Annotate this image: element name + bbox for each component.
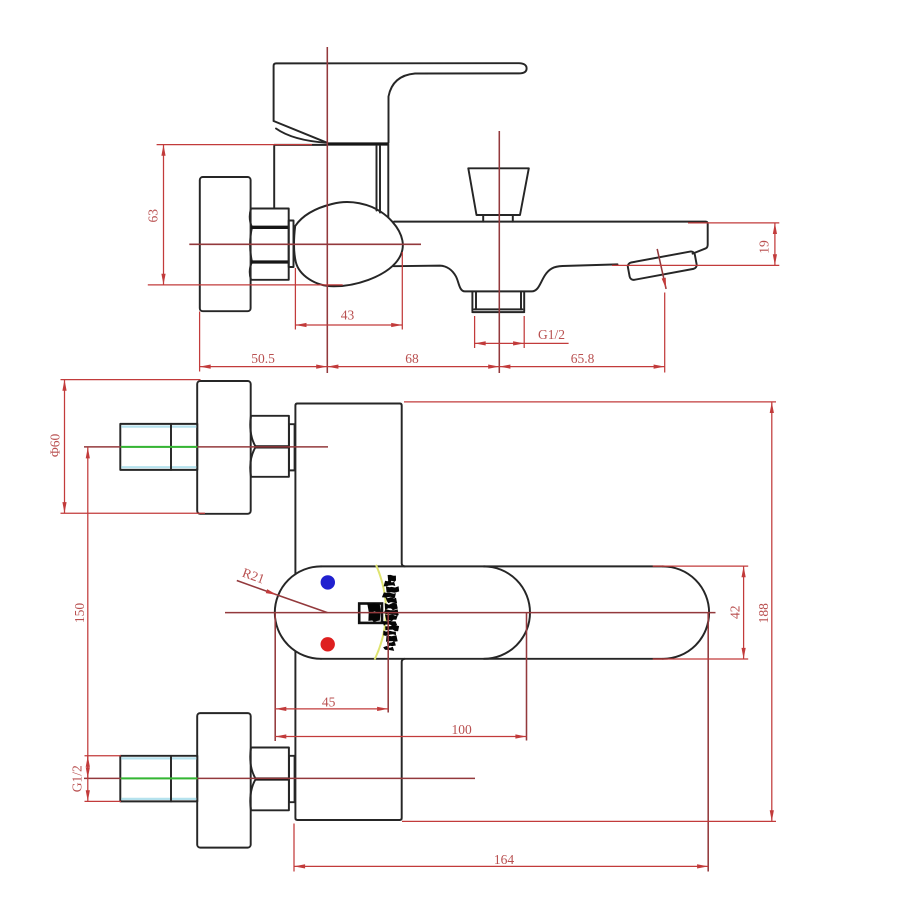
lower pipe divider <box>170 756 172 802</box>
nipple thread root lines <box>476 292 521 310</box>
upper wall flange (front) <box>197 381 251 514</box>
diverter centerline (vertical) <box>498 131 500 373</box>
svg-text:43: 43 <box>341 308 355 323</box>
extension line handle axis <box>387 613 389 713</box>
handle dome arc <box>276 129 327 143</box>
svg-text:63: 63 <box>146 209 161 223</box>
lower hex nut facet line <box>256 777 289 780</box>
nipple bottom cap <box>474 308 523 310</box>
hex nut (side) outline <box>251 209 289 280</box>
dim G1/2 top line <box>475 342 525 344</box>
lower eccentric pipe <box>120 756 197 802</box>
dim G1/2 top extension lines <box>475 316 525 348</box>
svg-text:19: 19 <box>757 240 772 254</box>
dim 188 extension lines <box>402 402 776 822</box>
dim 150 line <box>87 447 89 778</box>
dim 42 line <box>743 566 745 659</box>
svg-text:100: 100 <box>451 722 472 737</box>
handle pill right cap <box>663 566 709 658</box>
spout body bar bottom profile with valley <box>394 264 618 291</box>
yellow accent arc <box>375 565 386 660</box>
extension line spout axis front <box>526 613 528 741</box>
dim G1/2 top leader <box>524 342 568 344</box>
valve centerline (vertical) <box>326 47 328 373</box>
extension line flange left <box>199 312 201 372</box>
nipple bottom cap outer <box>472 311 524 313</box>
lower hex nut outline <box>251 748 289 811</box>
R21 leader tail <box>277 595 328 613</box>
blue cold dot <box>321 575 335 589</box>
tub spout nozzle (tilted) <box>627 251 697 281</box>
body plate lower part <box>295 651 404 820</box>
dim 68 line <box>327 366 499 368</box>
dim 63 line <box>163 145 165 285</box>
upper inlet centerline <box>84 446 328 448</box>
pill horizontal centerline <box>225 612 716 614</box>
shower outlet thread nipple <box>472 292 524 312</box>
dim 45 line <box>275 708 388 710</box>
dim phi60 extension lines <box>61 380 206 514</box>
diverter stem <box>483 215 513 222</box>
upper hex nut chamfer arcs <box>250 416 255 477</box>
hex nut (side) chamfer arcs <box>250 209 252 280</box>
wall flange (side) <box>200 177 251 311</box>
escutcheon pill left cap R21 <box>275 566 321 658</box>
extension line spout axis <box>664 293 666 373</box>
dim 188 line <box>771 402 773 822</box>
svg-text:150: 150 <box>72 603 87 624</box>
hex nut facet line upper <box>251 226 289 229</box>
svg-text:G1/2: G1/2 <box>70 765 85 792</box>
upper hex nut outline <box>251 416 289 477</box>
extension line pill left <box>274 613 276 741</box>
logo scribble marks <box>367 575 399 651</box>
cartridge housing right double edge <box>377 146 381 213</box>
dim 19 line <box>774 223 776 266</box>
dim 100 line <box>275 736 526 738</box>
pill top edge <box>321 565 663 567</box>
body plate upper part <box>295 404 404 575</box>
dim phi60 line <box>64 380 66 514</box>
upper pipe cyan thread bands <box>121 427 196 468</box>
dim 164 line <box>294 865 708 867</box>
svg-text:50.5: 50.5 <box>251 351 275 366</box>
body horizontal centerline <box>189 243 421 245</box>
svg-text:188: 188 <box>756 603 771 624</box>
valve body right edge <box>387 144 389 217</box>
svg-text:G1/2: G1/2 <box>538 327 565 342</box>
upper collar <box>289 424 295 470</box>
lower collar <box>289 756 295 802</box>
lower pipe cyan thread bands <box>121 758 196 799</box>
spout axis centerline with arrow <box>657 249 666 289</box>
R21 leader line with arrow <box>237 581 277 595</box>
svg-text:45: 45 <box>322 695 336 710</box>
dim 63 extension lines <box>148 145 343 285</box>
svg-text:164: 164 <box>494 852 515 867</box>
svg-text:65.8: 65.8 <box>571 351 595 366</box>
escutcheon pill right cap <box>484 566 530 658</box>
cartridge housing left edge <box>273 146 275 209</box>
lower pipe green centerline <box>121 777 198 779</box>
upper eccentric pipe <box>120 424 197 470</box>
red hot dot <box>321 637 335 651</box>
spout body bar top and right <box>394 222 708 254</box>
dim G1/2 front line <box>87 756 89 802</box>
egg-shaped valve body (side) <box>294 202 403 286</box>
washer between nut and body <box>289 221 294 268</box>
cartridge cap thick top line <box>327 142 388 145</box>
svg-text:42: 42 <box>728 606 743 620</box>
lower hex nut chamfer arcs <box>250 748 255 811</box>
upper hex nut facet line <box>256 445 289 448</box>
handle lever outline <box>274 63 527 143</box>
dim 43 extension lines <box>295 252 402 330</box>
pill bottom edge <box>321 658 663 660</box>
cartridge cap thin top line <box>274 144 327 146</box>
diverter knob <box>468 168 529 215</box>
dim 42 extension lines <box>653 566 749 659</box>
extension line pill right end <box>707 613 709 872</box>
dim 65.8 line <box>499 366 664 368</box>
temperature mark square <box>359 604 382 623</box>
dim 19 extension lines <box>612 223 779 266</box>
dim 50.5 line <box>200 366 328 368</box>
svg-text:Φ60: Φ60 <box>48 433 63 457</box>
lower wall flange (front) <box>197 713 251 848</box>
dim G1/2 front extension lines <box>85 756 122 802</box>
svg-text:68: 68 <box>405 351 419 366</box>
upper pipe green centerline <box>121 446 198 448</box>
dim 164 extension line left <box>293 824 295 872</box>
upper pipe divider <box>170 424 172 470</box>
lower inlet centerline <box>84 777 475 779</box>
hex nut facet line lower <box>251 260 289 263</box>
dim 43 line <box>295 324 402 326</box>
